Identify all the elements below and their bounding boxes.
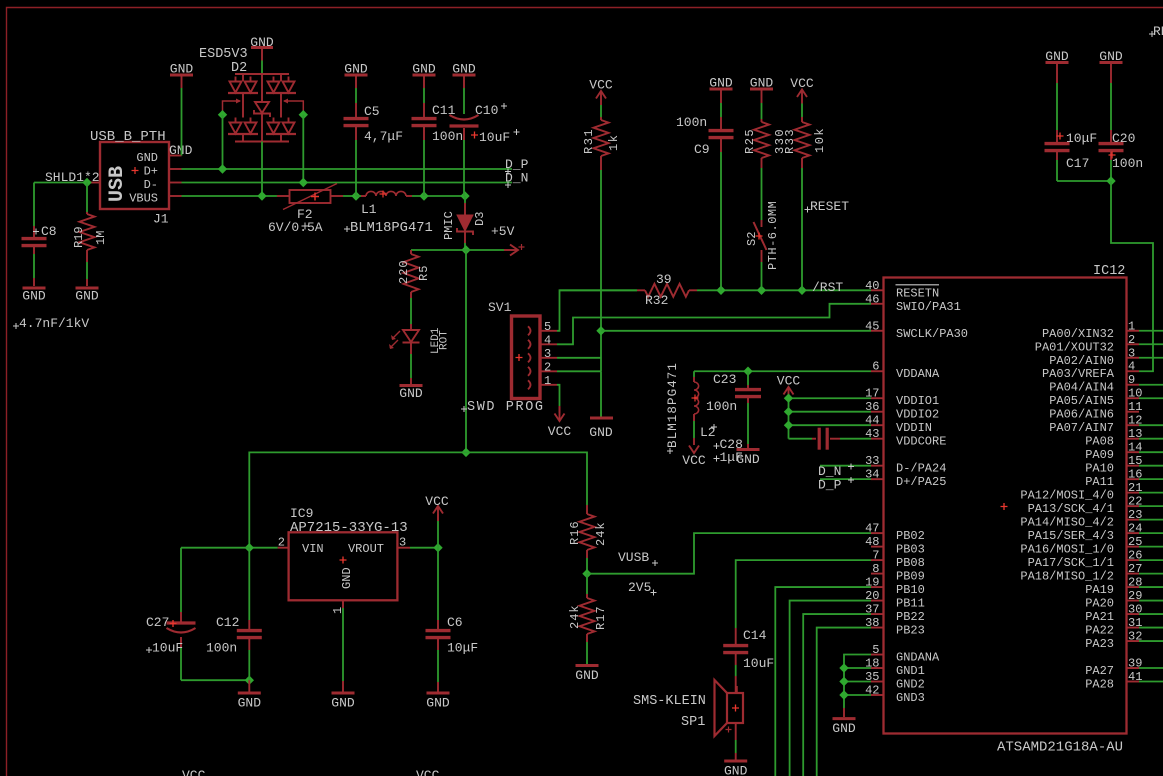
svg-text:D3: D3 [473,212,487,226]
svg-text:PA19: PA19 [1085,583,1114,597]
IC12 pin 13 PA08 [1127,438,1140,440]
svg-text:PB22: PB22 [896,610,925,624]
junction C9 node [716,286,725,295]
svg-text:R17: R17 [594,605,608,630]
resistor R5 220 [410,250,412,254]
svg-text:8: 8 [872,562,879,576]
resistor R31 1k [600,105,602,117]
svg-text:PB08: PB08 [896,556,925,570]
svg-text:VDDCORE: VDDCORE [896,435,946,449]
svg-text:24k: 24k [594,521,608,546]
IC12 pin 25 PA16/MOSI_1/0 [1127,546,1140,548]
svg-text:C5: C5 [364,104,380,119]
svg-text:D+: D+ [144,165,158,179]
resistor R33 10k [801,104,803,118]
IC9 pin 1 GND [342,600,344,608]
IC12 pin 39 PA27 [1127,667,1140,669]
ground GND (R25) [750,88,773,91]
IC12 pin 48 PB03 [871,546,884,548]
resistor R19 1M [86,212,88,214]
svg-text:R32: R32 [645,293,668,308]
svg-text:PA28: PA28 [1085,678,1114,692]
svg-text:+5V: +5V [491,224,515,239]
wire R25 to S2 [761,168,763,220]
IC12 pin 6 VDDANA [871,370,884,372]
svg-text:J1: J1 [153,212,169,227]
wire IC pin 37 down [803,614,871,776]
SV1 pin 5 [528,326,531,335]
supply VCC (VROUT) [437,521,439,548]
junction S2 node [757,286,766,295]
IC12 pin 22 PA13/SCK_4/1 [1127,505,1140,507]
junction SWCLK node [596,326,605,335]
IC12 pin 4 PA03/VREFA [1127,370,1140,372]
inductor L1 BLM18PG471 [356,195,361,197]
svg-text:SV1: SV1 [488,300,512,315]
svg-text:ROT: ROT [439,330,451,350]
IC12 pin 29 PA20 [1127,600,1140,602]
svg-text:GND: GND [575,668,599,683]
speaker SP1 SMS-KLEIN [735,676,737,693]
wire from IC12 pin 12 [1139,424,1163,426]
wire IC pin 20 down [790,601,871,776]
svg-text:PA15/SER_4/3: PA15/SER_4/3 [1028,529,1114,543]
wire VCC riser to IC pin 4 [1111,181,1153,371]
IC12 pin 14 PA09 [1127,451,1140,453]
capacitor C27 10uF polarized [180,548,182,612]
svg-text:VIN: VIN [302,542,324,556]
IC9 pin 2 VIN [278,547,289,549]
wire from IC12 pin 26 [1139,559,1163,561]
wire D2 left to D+ line [222,115,224,169]
wire from IC12 pin 10 [1139,397,1163,399]
wire IC pin 6 to C23/L2 [694,370,871,372]
svg-text:VDDANA: VDDANA [896,367,940,381]
wire from IC12 pin 22 [1139,505,1163,507]
IC12 pin 45 SWCLK/PA30 [871,330,884,332]
svg-text:GND: GND [340,567,354,589]
svg-text:SMS-KLEIN: SMS-KLEIN [633,694,706,709]
svg-text:4: 4 [1128,360,1135,374]
IC12 pin 21 PA12/MOSI_4/0 [1127,492,1140,494]
svg-text:PA08: PA08 [1085,435,1114,449]
ground GND (C5) [345,74,368,77]
IC12 pin 32 PA23 [1127,640,1140,642]
wire rail to IC9 and R16 [249,452,587,547]
IC12 pin 44 VDDIN [871,424,884,426]
capacitor C10 10uF polarized [463,77,465,89]
IC12 pin 23 PA14/MISO_4/2 [1127,519,1140,521]
svg-text:9: 9 [1128,373,1135,387]
supply VCC (SV1 pin1) [559,406,561,413]
svg-text:PA23: PA23 [1085,637,1114,651]
ground GND (C11) [413,74,436,77]
svg-text:ESD5V3: ESD5V3 [199,47,248,62]
svg-text:100n: 100n [676,115,707,130]
svg-text:PB23: PB23 [896,624,925,638]
wire /RST to IC pin 40 [697,289,871,291]
svg-text:10uF: 10uF [152,641,183,656]
svg-text:GND: GND [709,76,733,91]
svg-text:VCC: VCC [182,768,206,776]
svg-text:6: 6 [872,360,879,374]
ground GND (IC9) [332,692,355,695]
wire SV1 pin5 to R32 [557,290,637,331]
svg-text:100n: 100n [206,641,237,656]
J1 pin stubs [169,155,182,157]
IC12 pin 28 PA19 [1127,586,1140,588]
svg-text:R25: R25 [743,128,757,154]
svg-text:1M: 1M [94,231,108,245]
IC12 pin 33 D-/PA24 [871,465,884,467]
svg-text:GND: GND [1099,49,1123,64]
wire L1 to C11/C10 [412,195,465,197]
svg-text:ATSAMD21G18A-AU: ATSAMD21G18A-AU [997,740,1123,756]
IC12 pin 34 D+/PA25 [871,478,884,480]
IC12 pin 41 PA28 [1127,681,1140,683]
junction +5V rail split [461,448,470,457]
wire SV1 pin1 to VCC [557,385,560,406]
svg-text:PTH-6.0MM: PTH-6.0MM [766,201,780,270]
ground GND (C6) [427,692,450,695]
IC12 pin 38 PB23 [871,627,884,629]
capacitor C12 100n [248,548,250,620]
ground GND (C17) [1046,61,1069,64]
IC12 pin 30 PA21 [1127,613,1140,615]
capacitor C6 10uF [437,548,439,620]
IC12 pin 18 GND1 [871,667,884,669]
svg-text:4.7nF/1kV: 4.7nF/1kV [19,316,89,331]
wire C27 bottom to C12 node [181,679,249,681]
wire from IC12 pin 30 [1139,613,1163,615]
junction VUSB/2V5 node [582,569,591,578]
svg-text:GND: GND [412,62,436,77]
svg-text:5: 5 [872,643,879,657]
junction VBUS / C10 / D3 [460,191,469,200]
svg-text:1μF: 1μF [720,450,743,465]
wire +5V to R5 [411,249,466,251]
wire from IC12 pin 31 [1139,627,1163,629]
junction +5V node [461,245,470,254]
svg-text:VCC: VCC [425,494,449,509]
wire SWCLK to IC pin 45 [601,330,871,332]
svg-text:/RST: /RST [812,280,843,295]
svg-text:PA07/AIN7: PA07/AIN7 [1049,421,1114,435]
svg-text:4,7μF: 4,7μF [364,129,403,144]
IC12 pin 26 PA17/SCK_1/1 [1127,559,1140,561]
svg-text:C9: C9 [694,142,710,157]
wire from IC12 pin 21 [1139,492,1163,494]
svg-text:SWD PROG: SWD PROG [467,400,545,415]
IC12 pin 9 PA04/AIN4 [1127,384,1140,386]
fuse F2 6V/0.5A [277,195,290,197]
svg-text:GND: GND [170,62,194,77]
svg-text:C14: C14 [743,628,767,643]
svg-text:C12: C12 [216,615,239,630]
svg-text:GND: GND [724,764,748,776]
svg-text:PA21: PA21 [1085,610,1114,624]
ground GND (C23) [737,448,760,451]
svg-text:2: 2 [278,536,285,550]
svg-text:2: 2 [544,360,551,374]
capacitor C9 100n [720,91,722,104]
svg-text:PB11: PB11 [896,597,925,611]
svg-text:PA05/AIN5: PA05/AIN5 [1049,394,1114,408]
capacitor C28 1uF [789,438,813,440]
wire from IC12 pin 23 [1139,519,1163,521]
IC12 pin 16 PA11 [1127,478,1140,480]
wire D_P to IC pin 34 [820,478,871,480]
svg-text:100n: 100n [432,129,463,144]
svg-text:GNDANA: GNDANA [896,651,940,665]
wire from IC12 pin 24 [1139,532,1163,534]
capacitor C8 [33,226,35,238]
IC12 pin 20 PB11 [871,600,884,602]
svg-text:48: 48 [865,535,879,549]
IC12 pin 19 PB10 [871,586,884,588]
svg-text:10uF: 10uF [479,130,510,145]
IC12 pin 35 GND2 [871,681,884,683]
svg-text:PA17/SCK_1/1: PA17/SCK_1/1 [1028,556,1114,570]
svg-text:GND: GND [238,696,262,711]
svg-text:100n: 100n [1112,156,1143,171]
junction VIN [245,543,254,552]
ground GND (C9) [710,88,733,91]
IC12 pin 31 PA22 [1127,627,1140,629]
supply VCC (L2) [693,438,695,445]
svg-text:4: 4 [544,333,551,347]
junction D2 left pin [218,110,227,119]
wire from IC12 pin 13 [1139,438,1163,440]
wire SV1 pin3 to SWCLK net [557,357,601,359]
wire R31 to SWD/SWCLK net [600,170,602,371]
wire SV1 pin2 to ground [557,370,601,372]
wire SHLD down to C8 [33,183,35,227]
junction VDDIO2 [784,407,793,416]
IC12 pin 37 PB22 [871,613,884,615]
svg-text:46: 46 [865,292,879,306]
SV1 pin 2 [528,367,531,376]
wire J1 GND to ground [181,88,183,156]
svg-text:S2: S2 [745,232,759,246]
svg-text:40: 40 [865,279,879,293]
junction VROUT [433,543,442,552]
svg-text:PA10: PA10 [1085,462,1114,476]
IC12 pin 36 VDDIO2 [871,411,884,413]
svg-text:PA06/AIN6: PA06/AIN6 [1049,408,1114,422]
IC12 pin 24 PA15/SER_4/3 [1127,532,1140,534]
svg-text:RE: RE [1153,24,1163,39]
junction VBUS / C11 [419,191,428,200]
wire D_N to IC pin 33 [820,465,871,467]
ground GND (R17) [576,664,599,667]
junction C23 top [743,367,752,376]
wire IC pin 7 to C14 [736,560,871,628]
svg-text:10μF: 10μF [1066,131,1097,146]
junction VDDIN [784,421,793,430]
svg-text:1: 1 [544,374,551,388]
svg-text:VDDIO1: VDDIO1 [896,394,939,408]
wire GNDANA/GND1/GND2/GND3 to ground [844,655,871,708]
svg-text:SWCLK/PA30: SWCLK/PA30 [896,327,968,341]
wire from IC12 pin 25 [1139,546,1163,548]
IC12 pin 15 PA10 [1127,465,1140,467]
junction VBUS / D2 [257,191,266,200]
ground GND (C10) [453,74,476,77]
ground GND (SP1) [724,760,747,763]
LED LED1 ROT [410,324,412,330]
svg-text:PB10: PB10 [896,583,925,597]
svg-text:VCC: VCC [682,453,706,468]
svg-text:R31: R31 [582,128,596,154]
svg-text:AP7215-33YG-13: AP7215-33YG-13 [290,520,408,536]
IC9 pin 3 VROUT [397,547,410,549]
svg-text:VUSB: VUSB [618,550,649,565]
svg-text:VCC: VCC [416,768,440,776]
svg-text:3: 3 [1128,346,1135,360]
svg-text:GND: GND [452,62,476,77]
diode D3 PMIC [464,196,466,203]
svg-text:3: 3 [399,536,406,550]
svg-text:GND1: GND1 [896,664,925,678]
svg-text:PA14/MISO_4/2: PA14/MISO_4/2 [1020,516,1114,530]
svg-text:PA13/SCK_4/1: PA13/SCK_4/1 [1028,502,1114,516]
svg-text:SWIO/PA31: SWIO/PA31 [896,300,961,314]
IC12 pin 47 PB02 [871,532,884,534]
junction D_N / D2 [299,178,308,187]
svg-text:VBUS: VBUS [129,192,158,206]
svg-text:5: 5 [544,320,551,334]
svg-text:PA02/AIN0: PA02/AIN0 [1049,354,1114,368]
svg-text:GND: GND [136,151,158,165]
IC12 pin 3 PA02/AIN0 [1127,357,1140,359]
svg-text:VROUT: VROUT [348,542,384,556]
svg-text:SP1: SP1 [681,715,705,730]
capacitor C14 10uF [735,628,737,644]
svg-text:R33: R33 [783,128,797,154]
svg-text:GND: GND [75,289,99,304]
svg-text:220: 220 [397,259,411,284]
value label 4.7nF/1kV [13,323,19,329]
IC12 pin 17 VDDIO1 [871,397,884,399]
svg-text:100n: 100n [706,399,737,414]
svg-text:C17: C17 [1066,156,1089,171]
svg-text:PA04/AIN4: PA04/AIN4 [1049,381,1114,395]
svg-text:PB03: PB03 [896,543,925,557]
IC12 pin 5 GNDANA [871,654,884,656]
svg-text:1: 1 [1128,319,1135,333]
ground GND (IC12) [833,717,856,720]
IC12 pin 11 PA06/AIN6 [1127,411,1140,413]
svg-text:PA18/MISO_1/2: PA18/MISO_1/2 [1020,570,1114,584]
wire SV1 pin4 to IC pin 46 [557,304,871,345]
svg-text:C27: C27 [146,615,169,630]
wire VROUT node [410,547,438,549]
svg-text:USB: USB [106,166,129,202]
svg-text:7: 7 [872,549,879,563]
svg-text:PB02: PB02 [896,529,925,543]
ground GND (SV1 pin2) [600,371,602,417]
svg-text:45: 45 [865,319,879,333]
junction GND3 [839,690,848,699]
junction GND1 [839,663,848,672]
junction D_P / D2 [218,164,227,173]
resistor R17 24k [586,574,588,594]
SV1 pin 4 [528,340,531,349]
svg-text:R5: R5 [417,265,431,281]
wire SHLD down to R19 [86,183,88,213]
svg-text:R19: R19 [72,226,86,248]
IC12 pin 10 PA05/AIN5 [1127,397,1140,399]
wire D2 bottom to VBUS line [261,142,263,197]
svg-text:GND: GND [22,289,46,304]
wire from IC12 pin 3 [1139,357,1163,359]
svg-text:PA22: PA22 [1085,624,1114,638]
capacitor C17 10uF [1056,64,1058,83]
svg-text:RESETN: RESETN [896,286,939,300]
wire from IC12 pin 9 [1139,384,1163,386]
svg-text:2V5: 2V5 [628,580,651,595]
svg-text:D+/PA25: D+/PA25 [896,475,946,489]
svg-text:PA00/XIN32: PA00/XIN32 [1042,327,1114,341]
IC12 pin 7 PB08 [871,559,884,561]
svg-text:C20: C20 [1112,131,1135,146]
IC12 pin 42 GND3 [871,694,884,696]
wire from IC12 pin 32 [1139,640,1163,642]
svg-text:GND: GND [426,696,450,711]
IC12 pin 1 PA00/XIN32 [1127,330,1140,332]
junction R33 node [797,286,806,295]
svg-text:GND2: GND2 [896,678,925,692]
wire net VBUS from J1 to F2 [182,195,278,197]
svg-text:PA03/VREFA: PA03/VREFA [1042,367,1115,381]
svg-text:GND: GND [331,696,355,711]
svg-text:PB09: PB09 [896,570,925,584]
svg-text:PA20: PA20 [1085,597,1114,611]
svg-text:39: 39 [656,272,672,287]
svg-text:BLM18PG471: BLM18PG471 [350,221,433,236]
switch S2 PTH-6.0MM [761,220,763,227]
IC12 pin 12 PA07/AIN7 [1127,424,1140,426]
wire from IC12 pin 41 [1139,681,1163,683]
svg-text:GND: GND [832,721,856,736]
wire from IC12 pin 29 [1139,600,1163,602]
svg-text:GND: GND [344,62,368,77]
wire from IC12 pin 15 [1139,465,1163,467]
svg-text:GND: GND [589,425,613,440]
wire C17 to C20 node [1057,180,1111,182]
svg-text:D-: D- [144,178,158,192]
ground GND (C12) [238,692,261,695]
svg-text:24k: 24k [568,604,582,629]
J1 shield pin [87,182,100,184]
svg-text:PMIC: PMIC [442,211,456,240]
svg-text:PA12/MOSI_4/0: PA12/MOSI_4/0 [1020,489,1114,503]
svg-text:6V/0.5A: 6V/0.5A [268,220,323,235]
wire from IC12 pin 16 [1139,478,1163,480]
svg-text:VDDIN: VDDIN [896,421,932,435]
wire +5V down to 3V3 rail [465,250,467,452]
svg-text:GND: GND [750,76,774,91]
ground GND (C20) [1100,61,1123,64]
ground GND (LED1) [400,384,423,387]
svg-text:D-/PA24: D-/PA24 [896,462,946,476]
capacitor C11 100n [423,77,425,89]
wire SHLD net [34,182,87,184]
svg-text:C23: C23 [713,372,736,387]
junction C12 bottom [245,676,254,685]
wire from IC12 pin 28 [1139,586,1163,588]
